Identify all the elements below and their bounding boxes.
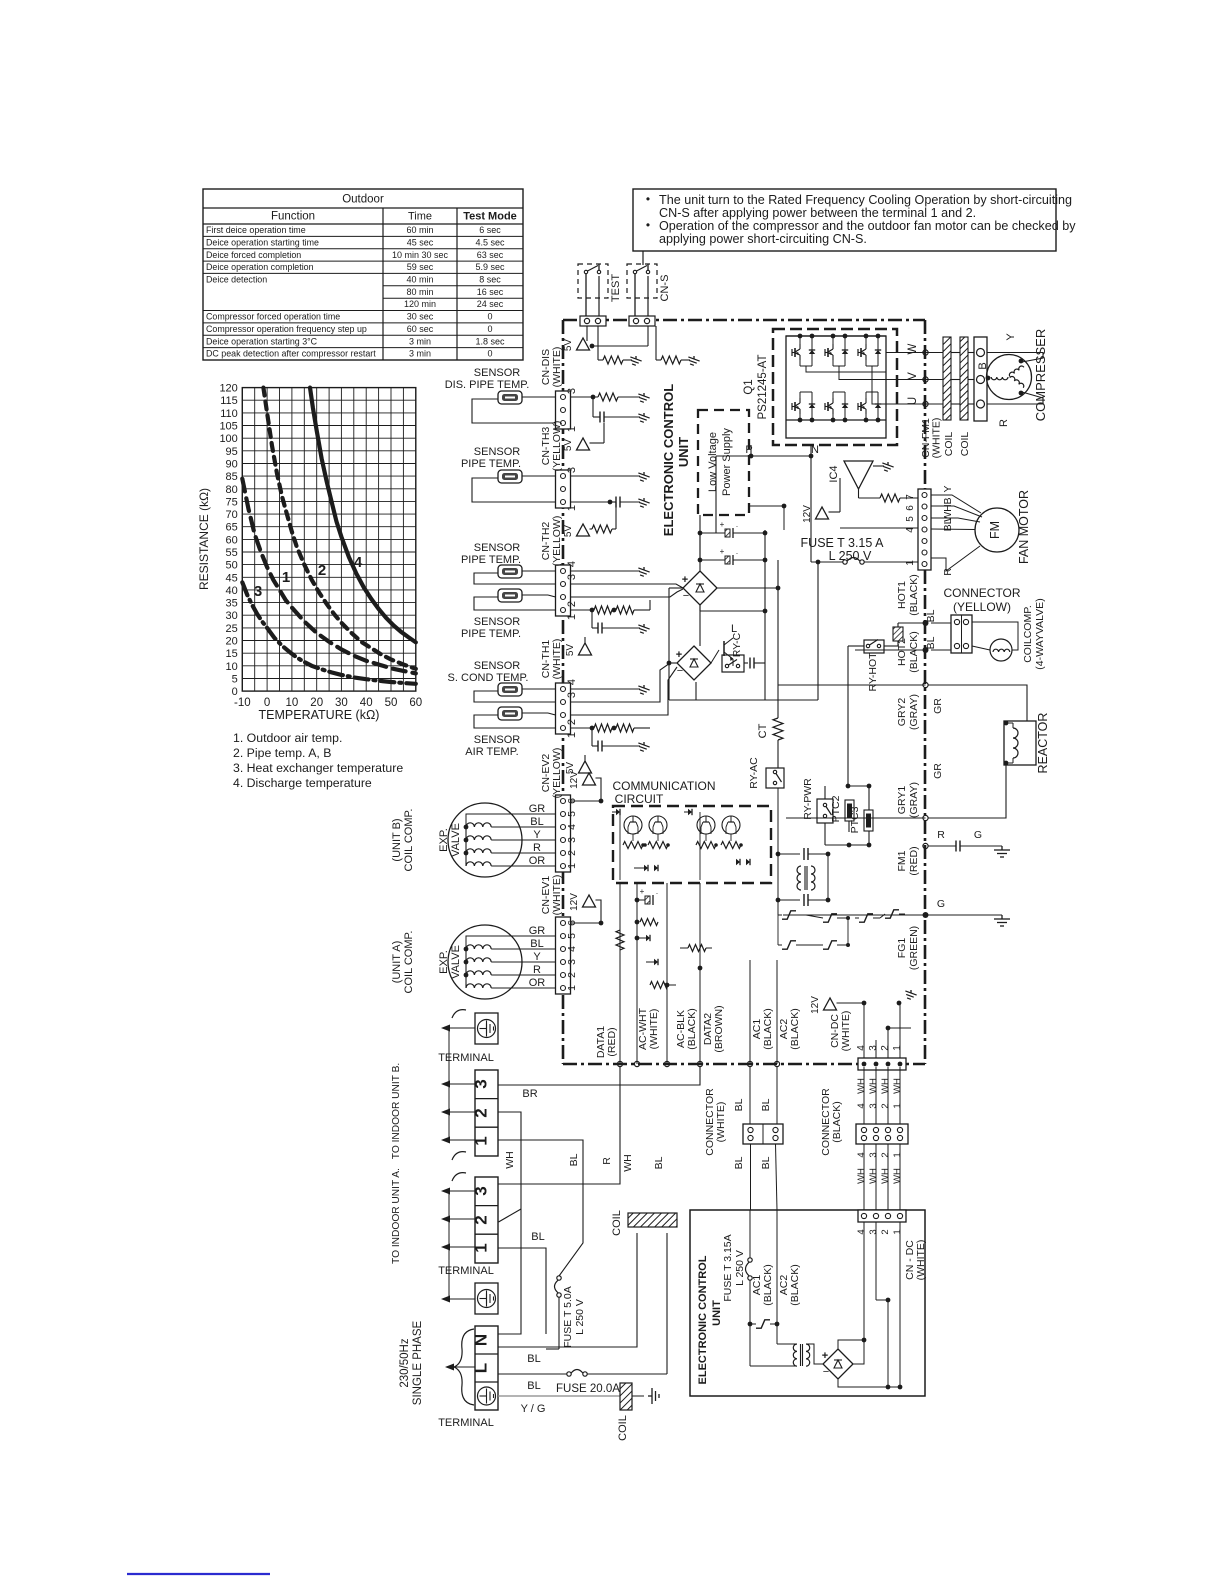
svg-text:80: 80: [226, 484, 238, 496]
svg-text:BL: BL: [530, 938, 543, 950]
wire ct: [777, 588, 779, 768]
bridge rectifier B2: [676, 646, 711, 680]
communication circuit label: [612, 779, 715, 806]
node CN-TH3 pin1: [608, 500, 613, 505]
ground FG1: [994, 915, 1010, 926]
wire lvps bus: [699, 515, 701, 605]
svg-text:UNIT: UNIT: [711, 1300, 723, 1326]
label FM1: [896, 846, 920, 875]
svg-text:1: 1: [566, 614, 578, 620]
svg-text:WH: WH: [868, 1078, 879, 1094]
graph legend: [233, 731, 403, 790]
label AC2 (BLACK) top: [778, 1008, 801, 1049]
svg-text:RESISTANCE (kΩ): RESISTANCE (kΩ): [197, 488, 211, 590]
svg-text:4: 4: [566, 561, 578, 567]
svg-text:3: 3: [254, 583, 262, 600]
electrolytic cap C6: [698, 547, 765, 565]
label TERMINAL LN: [438, 1417, 494, 1429]
labels compresser phases: [977, 333, 1017, 427]
connector white: [743, 1124, 783, 1144]
svg-text:65: 65: [226, 522, 238, 534]
svg-text:5.9 sec: 5.9 sec: [475, 262, 505, 272]
svg-text:105: 105: [219, 421, 237, 433]
svg-text:0: 0: [487, 349, 492, 359]
svg-text:BL: BL: [925, 609, 937, 622]
exp valve coil circle B: [448, 803, 522, 877]
svg-text:20: 20: [226, 636, 238, 648]
svg-text:SENSOR: SENSOR: [474, 734, 521, 746]
Q1 box: [743, 329, 897, 445]
fuse T3.15A: [811, 558, 918, 565]
wires compresser: [987, 353, 1043, 405]
label TERMINAL B: [438, 1052, 494, 1064]
wire IC4 out: [859, 489, 881, 498]
arrows unit B: [441, 1028, 475, 1160]
svg-text:1: 1: [566, 426, 578, 432]
svg-text:+: +: [822, 1350, 828, 1362]
labels wh 4321 upper: [856, 1078, 903, 1109]
svg-text:85: 85: [226, 471, 238, 483]
label B: [391, 809, 462, 872]
wires connector yellow: [931, 623, 951, 650]
svg-text:BL: BL: [733, 1098, 745, 1111]
svg-text:FUSE 20.0A: FUSE 20.0A: [556, 1383, 620, 1395]
svg-text:2. Pipe temp. A, B: 2. Pipe temp. A, B: [233, 746, 331, 760]
ground FM1: [994, 846, 1010, 857]
svg-text:0: 0: [487, 312, 492, 322]
label WH 1: [504, 1151, 516, 1169]
arrester Z4: [812, 918, 850, 949]
terminal block indoor unit B: [472, 1070, 499, 1156]
compresser circle: [987, 355, 1032, 400]
svg-text:(GREEN): (GREEN): [908, 926, 920, 970]
capacitor CN-DIS: [593, 397, 640, 423]
svg-text:40: 40: [226, 585, 238, 597]
svg-text:SENSOR: SENSOR: [474, 542, 521, 554]
svg-text:35: 35: [226, 598, 238, 610]
ground CN-S: [686, 356, 699, 367]
wire FG1 ground: [783, 914, 1002, 916]
label TO INDOOR UNIT A: [391, 1168, 402, 1264]
svg-text:(BLACK): (BLACK): [789, 1008, 801, 1049]
svg-text:(BLACK): (BLACK): [831, 1101, 843, 1142]
label AC-BLK (BLACK): [675, 1008, 698, 1049]
label GR top: [932, 698, 944, 714]
svg-text:4.5 sec: 4.5 sec: [475, 237, 505, 247]
wires sensors th1: [474, 689, 556, 728]
wire DATA1 down: [617, 883, 622, 1067]
fuse ecu2: [746, 1210, 753, 1324]
svg-text:WH: WH: [892, 1078, 903, 1094]
svg-text:Q1: Q1: [743, 379, 755, 394]
svg-text:BL: BL: [530, 816, 543, 828]
wire AC1 mid: [749, 1067, 752, 1210]
svg-text:55: 55: [226, 547, 238, 559]
wire hot2 left: [855, 650, 926, 655]
5V CN-TH3: [563, 502, 616, 537]
relay RY-C: [722, 632, 744, 672]
svg-text:110: 110: [220, 408, 238, 420]
graph axis labels: [197, 383, 422, 722]
PTC3: [849, 806, 873, 833]
svg-text:PIPE TEMP.: PIPE TEMP.: [461, 554, 521, 566]
curve labels: [254, 554, 363, 600]
svg-text:VALVE: VALVE: [450, 945, 462, 979]
svg-text:+: +: [720, 547, 725, 556]
svg-text:S. COND TEMP.: S. COND TEMP.: [448, 672, 529, 684]
connector CN-TH2 (YELLOW): [540, 516, 578, 620]
svg-text:6: 6: [905, 505, 916, 511]
compresser coils: [991, 365, 1025, 388]
svg-text:PTC3: PTC3: [849, 806, 861, 833]
wire RYC loop left: [669, 588, 684, 700]
wires cn-dc ecu2: [864, 1216, 902, 1389]
svg-text:Y: Y: [533, 829, 541, 841]
svg-text:L 250 V: L 250 V: [574, 1299, 586, 1335]
svg-text:16 sec: 16 sec: [477, 287, 504, 297]
svg-text:First deice operation time: First deice operation time: [206, 225, 306, 235]
svg-text:Deice operation starting time: Deice operation starting time: [206, 237, 319, 247]
svg-text:1: 1: [892, 1045, 903, 1051]
wire BL pin1A: [498, 1247, 546, 1355]
electrolytic cap C5: [698, 520, 765, 538]
label COMPRESSER: [1033, 329, 1048, 421]
table: outdoor test-mode timing table: [203, 189, 523, 360]
svg-text:COIL: COIL: [959, 432, 971, 457]
label A: [391, 931, 462, 994]
svg-text:CN-S after applying power betw: CN-S after applying power between the te…: [659, 206, 976, 220]
arrester Z1: [778, 900, 806, 919]
svg-text:AIR TEMP.: AIR TEMP.: [465, 746, 518, 758]
svg-text:BL: BL: [527, 1380, 540, 1392]
svg-text:PS21245-AT: PS21245-AT: [757, 355, 769, 420]
svg-text:3: 3: [868, 1229, 879, 1234]
svg-text:1: 1: [472, 1136, 491, 1145]
sensor PIPE TEMP. th3: [461, 446, 522, 483]
label CN-DC (WHITE) top: [829, 1011, 852, 1052]
label GR bottom: [932, 763, 944, 779]
svg-text:WH: WH: [622, 1154, 634, 1172]
ground YG: [632, 1388, 659, 1404]
svg-text:30: 30: [226, 610, 238, 622]
svg-text:24 sec: 24 sec: [477, 299, 504, 309]
wire bridge1 bottom out: [700, 604, 765, 611]
arrester Z3: [778, 915, 812, 949]
svg-text:4: 4: [856, 1103, 867, 1108]
svg-text:RY-HOT: RY-HOT: [867, 652, 879, 692]
brace LN: [445, 1329, 475, 1405]
svg-text:WH: WH: [880, 1078, 891, 1094]
svg-text:60 sec: 60 sec: [407, 324, 434, 334]
graph grid: [242, 388, 415, 691]
node N: [811, 444, 819, 456]
exp valve coil circle A: [448, 925, 522, 999]
svg-text:UNIT: UNIT: [676, 437, 691, 467]
svg-text:IC4: IC4: [828, 465, 840, 482]
capacitor filter bottom: [776, 894, 831, 906]
label HOT1: [896, 574, 920, 615]
communication circuit box: [613, 806, 771, 883]
wire P stub: [749, 445, 754, 458]
svg-text:1: 1: [566, 985, 578, 991]
svg-text:70: 70: [226, 509, 238, 521]
svg-text:COIL: COIL: [611, 1210, 623, 1236]
fuse T5.0A: [555, 1276, 587, 1349]
wires sensor DIS to CN-DIS: [472, 397, 556, 423]
wire AC1 inside: [747, 960, 752, 1067]
svg-text:230/50Hz: 230/50Hz: [399, 1338, 411, 1387]
wire N down to fuse: [810, 456, 812, 562]
svg-text:RY-AC: RY-AC: [748, 757, 760, 789]
transformer ecu2: [750, 1324, 810, 1366]
svg-text:OR: OR: [529, 977, 546, 989]
svg-text:REACTOR: REACTOR: [1036, 713, 1050, 774]
12V supply CN-EV2: [569, 771, 603, 804]
mid components col2: [616, 930, 676, 989]
pin GRY2: [923, 682, 928, 687]
svg-text:COMPRESSER: COMPRESSER: [1033, 329, 1048, 421]
exp valve coils A: [464, 936, 556, 988]
svg-text:Deice operation completion: Deice operation completion: [206, 262, 314, 272]
label BL N: [527, 1353, 540, 1365]
label BL L: [527, 1380, 540, 1392]
svg-text:60 min: 60 min: [406, 225, 433, 235]
wire lvps vertical: [699, 515, 701, 560]
svg-text:Deice operation starting 3°C: Deice operation starting 3°C: [206, 336, 318, 346]
arrester Z2: [806, 914, 850, 922]
svg-text:2: 2: [566, 850, 578, 856]
svg-text:VALVE: VALVE: [450, 823, 462, 857]
svg-text:(BROWN): (BROWN): [713, 1005, 725, 1052]
svg-text:+: +: [640, 887, 645, 896]
svg-text:(GRAY): (GRAY): [908, 694, 920, 730]
terminal ground B: [475, 1013, 498, 1044]
connector yellow: [951, 615, 972, 653]
svg-text:1: 1: [892, 1103, 903, 1108]
svg-text:ELECTRONIC CONTROL: ELECTRONIC CONTROL: [661, 384, 676, 536]
svg-text:Operation of the compressor an: Operation of the compressor and the outd…: [659, 219, 1076, 233]
svg-text:3: 3: [566, 388, 578, 394]
svg-text:59 sec: 59 sec: [407, 262, 434, 272]
svg-text:4: 4: [905, 527, 916, 533]
svg-text:Function: Function: [271, 211, 315, 223]
svg-text:5: 5: [566, 933, 578, 939]
5V CN-DIS: [563, 423, 604, 451]
label TERMINAL A: [438, 1265, 494, 1277]
svg-text:(BLACK): (BLACK): [762, 1008, 774, 1049]
wires W V U to coils: [902, 350, 974, 407]
wire bridge2 bottom: [695, 682, 697, 700]
svg-text:30 sec: 30 sec: [407, 312, 434, 322]
svg-text:90: 90: [226, 459, 238, 471]
wires cn-dc inside: [864, 1003, 900, 1058]
ground CN-TH1 c: [636, 742, 649, 753]
reactor: [1004, 713, 1050, 774]
wire AC-WHT down: [634, 883, 639, 1067]
svg-text:R: R: [533, 842, 541, 854]
5V CN-TH1: [565, 728, 592, 774]
svg-text:WH: WH: [868, 1168, 879, 1184]
connector yellow label: [943, 586, 1020, 614]
svg-text:COIL: COIL: [617, 1415, 629, 1441]
wire hot1 path: [884, 623, 926, 646]
label 230/50Hz: [399, 1320, 424, 1405]
wire bridge2 left to sensors: [667, 661, 677, 666]
label ecu2: [697, 1255, 723, 1384]
svg-text:DIS. PIPE TEMP.: DIS. PIPE TEMP.: [445, 379, 530, 391]
svg-text:Deice detection: Deice detection: [206, 275, 267, 285]
svg-text:2: 2: [566, 972, 578, 978]
svg-text:3: 3: [868, 1103, 879, 1108]
svg-text:B: B: [977, 362, 989, 369]
svg-text:3 min: 3 min: [409, 349, 431, 359]
svg-text:1. Outdoor air temp.: 1. Outdoor air temp.: [233, 731, 342, 745]
svg-text:1: 1: [566, 505, 578, 511]
wires ptc: [825, 784, 871, 848]
connector black: [856, 1124, 908, 1144]
5V CN-TH2: [565, 610, 592, 656]
connector CN-EV2: [540, 748, 578, 872]
svg-text:(YELLOW): (YELLOW): [551, 516, 563, 567]
wire bus to P: [716, 456, 811, 533]
terminal ground A: [475, 1283, 498, 1314]
svg-text:3: 3: [566, 467, 578, 473]
wire N branch down: [816, 560, 821, 700]
svg-text:Y: Y: [533, 951, 541, 963]
svg-text:1: 1: [282, 569, 290, 586]
svg-text:.: .: [736, 520, 738, 529]
svg-text:N: N: [472, 1334, 491, 1346]
ground CN-DIS c: [636, 413, 649, 424]
labels COIL COIL: [943, 432, 971, 457]
TEST switch: [578, 264, 622, 326]
svg-text:(UNIT B): (UNIT B): [391, 818, 403, 861]
svg-text:•: •: [646, 192, 650, 206]
svg-text:+: +: [676, 649, 682, 661]
svg-text:(WHITE): (WHITE): [551, 347, 563, 388]
svg-text:FG1: FG1: [896, 938, 908, 959]
svg-text:SENSOR: SENSOR: [474, 660, 521, 672]
svg-text:OR: OR: [529, 855, 546, 867]
label DATA2 (BROWN): [702, 1005, 725, 1052]
svg-text:12V: 12V: [810, 996, 821, 1014]
svg-text:(WHITE): (WHITE): [840, 1011, 852, 1052]
label WH 2: [622, 1154, 634, 1172]
svg-text:CIRCUIT: CIRCUIT: [615, 792, 664, 806]
svg-text:Compressor operation frequency: Compressor operation frequency step up: [206, 324, 367, 334]
labels wh 4321 lower: [856, 1152, 903, 1184]
connector CN-DIS (WHITE): [540, 347, 578, 432]
svg-text:COIL COMP.: COIL COMP.: [403, 809, 415, 872]
transformer T1: [778, 854, 815, 900]
svg-text:75: 75: [226, 496, 238, 508]
resistors CN-TH1 pin1: [571, 724, 651, 732]
svg-text:CT: CT: [757, 723, 769, 738]
label FAN MOTOR: [1017, 490, 1031, 564]
connector CN-TH1 (WHITE): [540, 639, 578, 738]
svg-text:GR: GR: [529, 803, 546, 815]
curve 2 pipe temp: [263, 388, 415, 669]
svg-text:4: 4: [354, 554, 363, 571]
ground IC4: [873, 462, 894, 473]
connector CN-FM1 (WHITE): [918, 418, 943, 570]
svg-text:5: 5: [566, 811, 578, 817]
svg-text:.: .: [736, 547, 738, 556]
svg-text:BL: BL: [568, 1153, 580, 1166]
wire Q1 N lead: [810, 445, 812, 449]
exp valve coils B: [464, 814, 556, 866]
svg-text:12V: 12V: [802, 505, 813, 523]
connector black label: [820, 1088, 843, 1156]
connector white label: [704, 1088, 727, 1156]
wire CN-TH1 pin2 right: [571, 667, 678, 715]
relay RY-PWR: [802, 778, 833, 823]
svg-text:63 sec: 63 sec: [477, 250, 504, 260]
wires transformer T1: [778, 854, 828, 900]
labels BL conn white: [733, 1098, 772, 1169]
svg-text:−: −: [823, 1366, 829, 1378]
svg-text:4: 4: [856, 1045, 867, 1051]
wire AC2 inside: [774, 960, 779, 1067]
wire DATA2 down: [697, 883, 702, 1067]
svg-text:(YELLOW): (YELLOW): [551, 748, 563, 799]
wire fuse to N: [498, 1334, 559, 1349]
coil bar 1: [943, 337, 951, 420]
svg-text:5: 5: [905, 516, 916, 522]
12V fan: [802, 478, 918, 528]
svg-text:2: 2: [472, 1108, 491, 1117]
pin HOT2: [923, 647, 929, 653]
sensor PIPE TEMP. b: [461, 589, 522, 640]
svg-text:WH: WH: [880, 1168, 891, 1184]
ground TEST: [628, 356, 641, 367]
svg-text:FUSE T 5.0A: FUSE T 5.0A: [562, 1286, 574, 1347]
svg-text:2: 2: [880, 1229, 891, 1234]
svg-text:+: +: [720, 520, 725, 529]
svg-text:GR: GR: [932, 698, 944, 714]
svg-text:1: 1: [892, 1152, 903, 1157]
svg-text:EXP.: EXP.: [438, 828, 450, 852]
wire bridge1 top: [699, 533, 701, 571]
svg-text:120 min: 120 min: [404, 299, 436, 309]
cn-dc connector top: [858, 1058, 906, 1070]
wire L fuse20: [498, 1233, 667, 1376]
svg-text:2: 2: [880, 1152, 891, 1157]
node ct top: [717, 560, 780, 590]
labels AC1 AC2 ecu2: [751, 1264, 801, 1305]
wire DATA2 to unit B pin3: [498, 1067, 700, 1085]
svg-text:PTC2: PTC2: [830, 795, 842, 822]
svg-text:COIL COMP.: COIL COMP.: [403, 931, 415, 994]
svg-text:R: R: [533, 964, 541, 976]
svg-text:BL: BL: [733, 1156, 745, 1169]
wire DATA1 R to pin3A: [498, 1067, 620, 1184]
svg-text:WH: WH: [504, 1151, 516, 1169]
electronic control unit 2 box: [690, 1210, 925, 1396]
svg-text:4. Discharge temperature: 4. Discharge temperature: [233, 776, 372, 790]
svg-text:5V: 5V: [563, 525, 574, 538]
svg-text:R: R: [942, 568, 954, 576]
svg-text:WH: WH: [856, 1168, 867, 1184]
svg-text:10 min 30 sec: 10 min 30 sec: [392, 250, 449, 260]
svg-text:HOT1: HOT1: [896, 581, 908, 609]
svg-text:.: .: [656, 887, 658, 896]
svg-text:(GRAY): (GRAY): [908, 782, 920, 818]
svg-text:3 min: 3 min: [409, 336, 431, 346]
sensor S. COND TEMP.: [448, 660, 529, 696]
svg-text:TO INDOOR UNIT B.: TO INDOOR UNIT B.: [391, 1063, 402, 1159]
svg-text:WH: WH: [856, 1078, 867, 1094]
